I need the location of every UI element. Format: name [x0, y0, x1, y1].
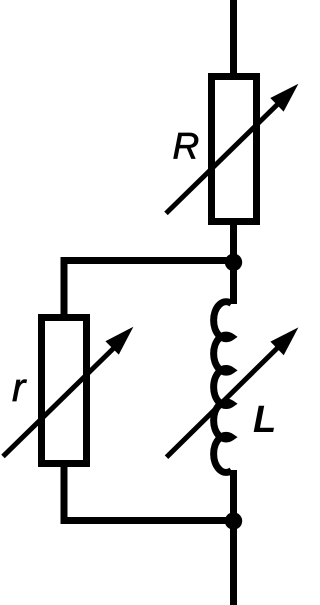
wire r to bottom node B [64, 464, 234, 521]
svg-text:R: R [173, 126, 200, 167]
resistor r [42, 318, 87, 464]
arrow (variable) r head [105, 327, 133, 355]
svg-text:L: L [253, 399, 276, 441]
node B junction dot [225, 512, 242, 529]
arrow (variable) r shaft [3, 343, 119, 456]
wire node A to inductor top [230, 259, 237, 304]
node A junction dot [225, 254, 242, 271]
arrow (variable) L shaft [167, 342, 285, 458]
resistor R [212, 77, 257, 222]
wire R to node A [230, 221, 237, 266]
wire inductor bottom to node B [230, 470, 237, 521]
wire node A to left branch [64, 261, 234, 318]
arrow (variable) L head [270, 327, 298, 355]
inductor L coil [214, 302, 232, 473]
svg-text:r: r [12, 366, 27, 410]
arrow (variable) R shaft [166, 98, 284, 213]
arrow (variable) R head [270, 84, 298, 112]
wire top feed [230, 0, 237, 76]
wire bottom feed [230, 521, 237, 605]
